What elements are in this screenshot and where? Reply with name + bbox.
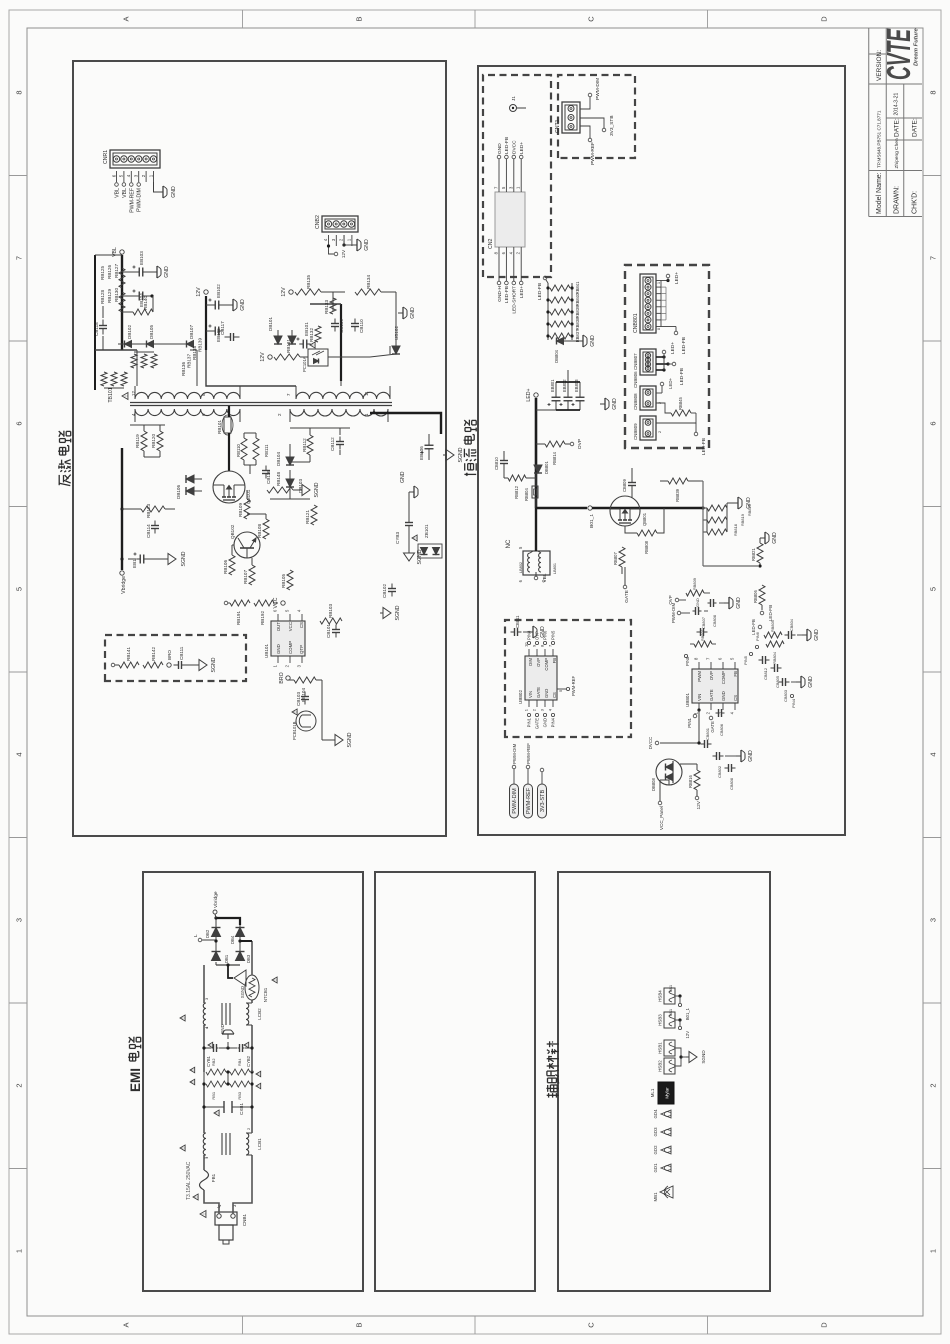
svg-text:COMP: COMP [288,641,293,654]
svg-text:12V: 12V [196,287,202,297]
svg-text:T3.15AL 250VAC: T3.15AL 250VAC [186,1161,192,1200]
resistor RB128 [119,292,125,312]
svg-text:!: ! [273,979,278,980]
title block text CHKD [912,191,919,214]
svg-text:CB112: CB112 [330,437,335,451]
svg-text:GND: GND [814,629,820,641]
wire DB808 left [660,780,669,785]
ground GND at CB803 [791,676,814,688]
connector CNB809 [633,416,656,440]
ground GND at sense [727,497,752,509]
svg-text:DVCC: DVCC [512,140,518,154]
capacitor EB103 [122,251,147,277]
node 12V feedback [260,352,272,362]
node divider input [111,663,119,667]
capacitor CB102 [382,584,396,599]
svg-text:CNR1: CNR1 [103,150,109,164]
capacitor EB105 [206,325,223,343]
flag 3V3-STB [538,768,547,818]
net 12V at CNB2 [327,244,347,258]
svg-text:LED-FB: LED-FB [504,286,510,303]
diode DB107 [154,325,195,348]
resistor RB141 [119,647,139,668]
svg-text:DB1: DB1 [224,954,229,963]
UB802 right pins [524,630,556,656]
svg-text:GND: GND [746,497,752,509]
net PIN5 PIN6 [743,631,760,665]
net B01_1 aux [675,994,690,1020]
svg-text:RB804: RB804 [524,488,529,501]
ground GND at CNR1 [154,182,178,198]
diode DB105 [132,325,155,348]
capacitor CB813 gnd [693,598,709,615]
svg-text:DB2: DB2 [205,929,210,938]
svg-text:COMP: COMP [721,671,726,684]
ground GND at EB caps [568,370,618,410]
svg-text:CYB2: CYB2 [246,1055,251,1067]
flag PWM-DIM [510,743,519,818]
svg-text:5: 5 [15,587,24,591]
wire LCB1 to CXB1 [204,1107,252,1133]
diode DB104 [276,444,294,466]
svg-text:MB1: MB1 [653,1192,658,1202]
svg-text:UB101: UB101 [264,644,269,658]
net GATE at UB801 [709,716,715,732]
net VCC_Panel [658,785,664,830]
svg-text:J1: J1 [511,96,516,101]
svg-text:B01_1: B01_1 [589,514,595,528]
svg-text:CB808: CB808 [729,778,734,790]
net PIN8 label [684,654,690,666]
svg-text:CNB1: CNB1 [242,1213,247,1226]
svg-text:CNB801: CNB801 [633,313,639,333]
wire snubber left [130,425,165,457]
svg-text:OVP: OVP [577,439,583,449]
svg-text:Vbridge: Vbridge [213,891,219,908]
svg-text:RB839: RB839 [675,488,680,501]
svg-text:RB127: RB127 [114,264,119,278]
resistor RB810 [690,629,716,647]
svg-text:GND: GND [695,598,700,607]
svg-text:3V3-STB: 3V3-STB [540,790,546,813]
svg-text:LED-FB: LED-FB [768,605,773,621]
svg-text:Mylar: Mylar [665,1087,670,1099]
svg-text:VCC: VCC [288,622,293,631]
svg-text:RB108: RB108 [257,524,262,538]
svg-text:RB107: RB107 [243,570,248,584]
zener UB102 [390,326,400,354]
wire primary bottom [190,350,197,386]
svg-text:3V3_STB: 3V3_STB [609,115,615,136]
svg-text:!: ! [311,344,316,345]
border row letters A-D [122,16,829,1328]
resistor RB105 [281,570,293,590]
resistor RB809 [686,578,710,596]
svg-text:B: B [355,1322,364,1327]
svg-text:SGND: SGND [314,482,320,497]
CN2 left side nets [494,247,526,314]
resistor RB841 [546,281,580,294]
svg-text:GATE: GATE [624,590,630,603]
UB802 left pins [524,676,577,730]
svg-text:RB140: RB140 [143,296,148,310]
svg-text:CXB1: CXB1 [239,1103,244,1115]
svg-text:!: ! [208,1044,213,1045]
diode DB2 [205,928,221,939]
flag PWM-REF [524,743,533,818]
resistor RB135 [295,275,321,295]
svg-text:NTCB1: NTCB1 [263,987,268,1002]
wire LB801 to B01_1 [530,508,541,553]
svg-text:DB801: DB801 [544,461,549,474]
resistor labels RB125-RB130 [100,264,119,304]
svg-text:QB801: QB801 [642,512,647,526]
transformer TB101 primary winding pins 12-8 [135,386,240,399]
svg-text:PWM-DIM: PWM-DIM [595,78,601,100]
signal ground SGND emi [228,965,246,998]
CNB801 pin stubs [656,281,666,327]
transformer TB101 core [130,403,392,406]
svg-text:GND-H: GND-H [497,285,503,301]
capacitor CB103 [296,692,309,707]
svg-text:DB4: DB4 [230,935,235,944]
svg-text:!: ! [190,1081,195,1082]
svg-text:RB819: RB819 [740,514,745,526]
node B01_1 [588,506,595,528]
svg-text:DATE:: DATE: [912,118,919,137]
svg-text:RB123: RB123 [146,504,151,518]
capacitor CB101 [326,624,340,638]
svg-text:FB: FB [733,671,738,677]
svg-text:12V: 12V [685,1031,690,1039]
svg-text:RB121: RB121 [305,510,310,524]
resistor RB112 [302,428,313,462]
snubber resistor bank RB136-RB139 group [101,352,157,388]
svg-text:FB: FB [552,658,557,664]
auxiliary section label 辅助材料 [546,1041,558,1097]
wire CS net [700,481,758,566]
svg-text:DB102: DB102 [127,325,132,339]
svg-text:C: C [587,16,596,22]
svg-text:8: 8 [929,90,938,94]
svg-text:CHK'D:: CHK'D: [912,191,919,214]
svg-text:CB807: CB807 [701,617,706,629]
svg-text:12: 12 [131,390,136,396]
border zone tick marks (rows) [243,10,708,1334]
svg-text:VCC_Panel: VCC_Panel [659,806,664,830]
ic UB101 [264,609,305,667]
wire secondary output thick [370,413,441,434]
signal ground SGND divider [185,657,217,672]
svg-text:3: 3 [15,918,24,922]
capacitor CB807 [697,617,708,636]
svg-text:UB802: UB802 [518,690,523,704]
svg-text:!: ! [215,1112,220,1113]
net 12V aux [675,1018,690,1038]
svg-text:DATE:: DATE: [894,118,901,137]
resistor RB107 [243,565,255,585]
net LED+ CNB808 [656,377,673,393]
svg-text:RB112: RB112 [302,438,307,452]
net LED-FB CNB809 [656,413,707,455]
svg-text:COMP: COMP [544,658,549,671]
svg-text:QTP: QTP [299,645,304,654]
capacitor CB112 [330,428,344,455]
mosfet QB101 [213,471,251,504]
aux heatsink tie [675,1048,686,1066]
svg-text:RB132: RB132 [309,328,314,342]
svg-text:DB104: DB104 [276,452,281,466]
net LED-FB ladder [537,276,548,300]
dashed box UB802 pin spec [505,620,631,737]
resistor RB103 [320,604,342,624]
svg-text:RB809: RB809 [692,578,697,590]
CNB1 pin labels [216,1204,237,1208]
capacitor CB110 [351,319,364,334]
svg-text:VIN: VIN [697,694,702,701]
resistor RB805 [760,620,782,638]
svg-text:OVP: OVP [536,658,541,667]
svg-text:SGND: SGND [181,551,187,566]
capacitor CB801 [701,728,712,748]
ic UB801 [685,657,738,714]
svg-text:CNB807: CNB807 [633,353,638,370]
svg-text:RB101: RB101 [217,420,222,434]
wire 12V to pin7 [206,350,296,386]
svg-text:RB133: RB133 [324,300,329,314]
ground GND at CNB2 [342,235,370,251]
capacitor CB804 [785,618,796,639]
svg-text:!: ! [256,1085,261,1086]
svg-text:TP.MS648.PB751 C71.8771: TP.MS648.PB751 C71.8771 [877,110,882,168]
svg-text:Dream Future: Dream Future [914,28,920,66]
svg-text:7: 7 [929,256,938,260]
capacitor EB1 [128,553,148,569]
net LED-FB at RB806 [760,605,773,621]
svg-text:CB810: CB810 [494,457,499,470]
ground GND at CYB3 [400,471,418,499]
svg-text:RB4: RB4 [237,1058,242,1066]
flyback section label 反激电路 [58,431,71,486]
svg-text:!: ! [244,1044,249,1045]
svg-text:VBL: VBL [115,188,121,198]
net L emi [193,934,216,942]
resistor RB807 [613,533,625,574]
wire VBL left rail [95,255,137,390]
svg-text:EMI: EMI [128,1068,143,1092]
svg-text:RB1: RB1 [211,1092,216,1100]
ground GND at UB102 [381,292,416,334]
capacitor CB808b [708,599,725,627]
RB bank wires [202,1070,253,1085]
resistor RB814 [536,441,565,465]
svg-text:CNT1: CNT1 [555,119,561,133]
svg-text:EB801: EB801 [550,379,555,392]
svg-text:HSB2: HSB2 [658,1060,663,1072]
svg-text:VBL: VBL [122,188,128,198]
wire primary top [122,350,137,386]
svg-text:LED-FB: LED-FB [679,368,685,385]
signal ground SGND near CB101 [380,605,401,620]
resistor RB808 [625,508,664,554]
wire CXB1 to RB bank [202,1084,253,1109]
svg-text:GND: GND [220,1024,225,1034]
heatsink HSB4 [658,985,676,1004]
svg-text:RB130: RB130 [114,288,119,302]
svg-text:1: 1 [15,1249,24,1253]
svg-text:6: 6 [15,421,24,425]
CNT1 net labels [580,78,615,165]
svg-text:RB105: RB105 [281,574,286,588]
signal ground SGND at EB1 [147,551,187,566]
svg-text:GND: GND [612,398,618,410]
resistor RB104 [294,677,316,702]
capacitor CB111 [174,646,187,669]
title block text drafter [894,138,900,168]
diode DB4 [230,928,245,945]
svg-text:ML1: ML1 [650,1088,655,1097]
capacitor CB805 [771,664,782,688]
wire BRO net [288,680,332,740]
diode DB1 [212,952,230,964]
svg-text:GATE: GATE [536,687,541,698]
wire regulation mid rail [321,292,345,311]
svg-text:CB811: CB811 [515,615,520,628]
signal ground SGND secondary [443,447,464,462]
svg-text:!: ! [190,1069,195,1070]
mylar ML1 [650,1082,674,1104]
svg-text:A: A [122,16,131,21]
CNB806 nets [656,342,685,385]
wire RB110 RB111 frame [244,433,256,474]
svg-text:SGND: SGND [211,657,217,672]
svg-text:BRO: BRO [167,650,172,660]
svg-text:PWM-REF: PWM-REF [526,787,532,814]
svg-text:RB814: RB814 [552,451,557,464]
resistor RB142 [143,647,163,668]
svg-text:GD3: GD3 [653,1127,658,1137]
choke LCB1 [180,1133,262,1155]
svg-text:2: 2 [929,1083,938,1087]
svg-text:RB126: RB126 [107,265,112,279]
svg-text:DB101: DB101 [268,317,273,331]
CNR1 net labels [115,183,143,213]
constant-current section label 恒流电路 [464,420,477,476]
svg-text:D: D [820,16,829,22]
svg-text:GND: GND [721,691,726,701]
capacitor CB116 [262,466,271,485]
svg-text:RB119: RB119 [135,434,140,448]
svg-text:B01_1: B01_1 [685,1007,690,1020]
svg-text:!: ! [181,1017,186,1018]
svg-text:OVP: OVP [668,595,673,604]
discharge resistor RB1 [206,1081,226,1100]
glue GD1 [653,1163,671,1173]
svg-text:A: A [122,1322,131,1327]
svg-text:RB142: RB142 [151,647,156,661]
svg-text:GND: GND [543,718,548,727]
svg-text:SGND: SGND [458,447,464,462]
svg-text:5: 5 [929,587,938,591]
resistor RB111 [253,438,269,460]
svg-text:PWM-REF: PWM-REF [526,743,531,764]
svg-text:CYB1: CYB1 [206,1055,211,1067]
svg-text:CNB2: CNB2 [315,215,321,229]
svg-text:2: 2 [658,402,662,404]
net PIN1 [687,708,701,727]
wire 12V rail [205,296,207,350]
svg-text:LB801: LB801 [553,563,557,574]
svg-text:PC101A: PC101A [302,356,307,372]
svg-text:SGND: SGND [701,1050,706,1064]
svg-text:GD1: GD1 [653,1163,658,1173]
svg-text:NC: NC [506,539,512,548]
net OVP flag [565,439,583,449]
resistor RB191 [230,600,250,625]
net 12V panel [695,790,702,810]
wire bridge left rail [216,962,240,967]
svg-text:!: ! [194,1196,199,1197]
svg-text:HSB1: HSB1 [658,1042,663,1054]
svg-text:!: ! [293,711,298,712]
net LED-FB right [751,619,762,635]
svg-text:4: 4 [929,752,938,756]
svg-text:PWM-REF: PWM-REF [590,142,596,165]
svg-text:GND: GND [164,266,170,278]
wire RB192 to UB101 [224,601,278,614]
svg-text:CB102: CB102 [382,584,387,598]
svg-text:LED-SHORT: LED-SHORT [512,286,518,314]
capacitor CXB1 [204,1101,252,1116]
svg-text:PWM-REF: PWM-REF [129,188,135,213]
signal ground SGND at CYB3 [404,544,424,565]
CNB801 bus wires [657,272,687,354]
svg-text:CS: CS [733,695,738,701]
svg-text:LED-FB: LED-FB [701,438,707,455]
net DVCC [648,737,659,749]
svg-text:L: L [193,934,199,937]
svg-text:CB103: CB103 [296,692,301,706]
svg-text:RB128: RB128 [100,290,105,304]
svg-text:QB102: QB102 [230,524,235,539]
svg-text:RB134: RB134 [366,275,371,289]
resistor RB110 [236,438,247,460]
resistor RB119 [135,431,147,451]
diode DB102 [118,325,132,348]
CNB808 pin2 labels [658,402,662,433]
svg-text:UB801: UB801 [685,693,690,707]
resistor RB816 [680,764,700,790]
svg-text:RB136: RB136 [181,362,186,376]
svg-text:LB802: LB802 [519,562,523,573]
svg-text:8: 8 [657,328,661,330]
svg-text:SGND: SGND [417,549,423,564]
svg-text:GND: GND [544,689,549,698]
svg-text:12V: 12V [696,800,702,809]
dashed box CNT1 interface [558,75,635,158]
svg-text:CB808: CB808 [712,615,717,627]
node VCC [273,597,285,608]
svg-text:GND: GND [240,299,246,311]
svg-text:RB138: RB138 [192,346,197,360]
svg-text:PWM-DIM: PWM-DIM [512,788,518,814]
svg-text:CB109: CB109 [339,319,344,333]
capacitor CB812 [759,656,770,680]
capacitor EB106 [419,434,434,460]
wire VBL rail [121,255,123,350]
capacitor CB808 [725,764,736,790]
svg-text:RB120: RB120 [151,434,156,448]
